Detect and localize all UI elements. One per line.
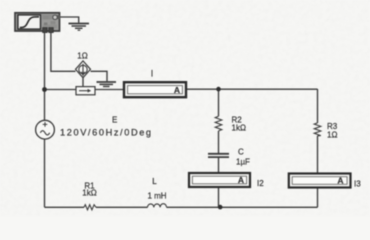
svg-text:1Ω: 1Ω xyxy=(327,130,337,139)
svg-text:1Ω: 1Ω xyxy=(77,51,87,60)
svg-text:120V/60Hz/0Deg: 120V/60Hz/0Deg xyxy=(60,128,153,138)
svg-text:C: C xyxy=(238,147,244,156)
svg-text:A: A xyxy=(174,85,180,95)
svg-text:1kΩ: 1kΩ xyxy=(82,189,96,198)
svg-text:I2: I2 xyxy=(257,179,264,188)
svg-text:I: I xyxy=(151,69,154,79)
svg-text:A: A xyxy=(337,176,343,186)
svg-text:1kΩ: 1kΩ xyxy=(232,123,246,132)
svg-text:L: L xyxy=(152,177,157,186)
svg-text:I3: I3 xyxy=(354,179,361,188)
svg-text:E: E xyxy=(112,115,117,124)
svg-text:A: A xyxy=(238,175,244,185)
svg-text:1µF: 1µF xyxy=(236,158,250,167)
svg-text:1 mH: 1 mH xyxy=(147,192,166,201)
